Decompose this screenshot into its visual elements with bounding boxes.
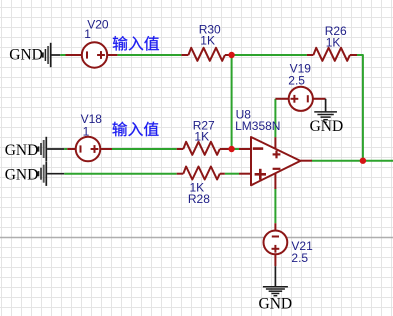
wire GND1 to V20 xyxy=(51,54,60,56)
net label 输入值 (middle) xyxy=(112,122,158,137)
svg-text:2.5: 2.5 xyxy=(288,73,305,87)
wire GND2 to V18 xyxy=(47,148,64,150)
junction node OUT xyxy=(360,158,366,164)
ground symbol of V21 xyxy=(274,266,276,286)
svg-text:LM358N: LM358N xyxy=(235,119,280,133)
wire R30 node to R26 xyxy=(232,54,307,56)
svg-text:GND: GND xyxy=(259,295,293,312)
wire R26 to corner down xyxy=(357,55,363,161)
wire R28 to op-amp non-inverting pin xyxy=(225,173,239,175)
net label 输入值 (top) xyxy=(113,36,159,51)
wire op-amp output to right edge xyxy=(312,160,393,162)
svg-text:1K: 1K xyxy=(326,35,341,49)
ground symbol of V19 xyxy=(325,99,327,112)
op-amp U8 LM358N xyxy=(251,137,300,185)
svg-text:1: 1 xyxy=(84,27,91,41)
voltage source V20 xyxy=(66,54,83,56)
wire op-amp V- pin to V21 xyxy=(274,189,276,224)
wire V19 to op-amp V+ pin xyxy=(274,99,276,137)
wire V18 to R27 xyxy=(112,148,177,150)
wire node A down to inverting input xyxy=(231,55,233,149)
svg-text:1K: 1K xyxy=(200,33,215,47)
wire GND3 to R28 xyxy=(47,173,64,175)
svg-text:GND: GND xyxy=(9,46,43,63)
svg-text:R28: R28 xyxy=(188,192,210,206)
resistor R27 xyxy=(177,148,184,150)
svg-text:2.5: 2.5 xyxy=(291,251,308,265)
voltage source V21 xyxy=(274,223,276,231)
svg-text:1K: 1K xyxy=(194,129,209,143)
wire node B to op-amp inverting pin xyxy=(232,148,239,150)
voltage source V19 xyxy=(275,98,289,100)
svg-text:GND: GND xyxy=(5,166,39,183)
voltage source V18 xyxy=(67,148,76,150)
junction node B xyxy=(228,146,234,152)
svg-text:GND: GND xyxy=(310,118,344,135)
resistor R26 xyxy=(307,54,314,56)
wire V20 to R30 xyxy=(117,54,181,56)
resistor R30 xyxy=(181,54,188,56)
svg-text:GND: GND xyxy=(5,142,39,159)
junction node A xyxy=(228,52,234,58)
resistor R28 xyxy=(177,173,184,175)
svg-text:1: 1 xyxy=(83,124,90,138)
